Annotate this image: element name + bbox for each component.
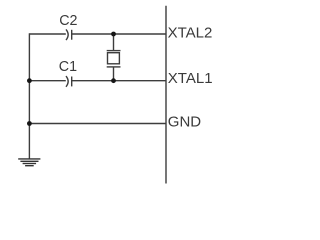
wire: XTAL1 net, left segment to C1: [29, 80, 65, 82]
wire: GND net horizontal: [29, 123, 166, 125]
svg-text:C1: C1: [59, 59, 77, 75]
IC edge (microcontroller outline pin edge): [165, 6, 167, 184]
svg-text:XTAL1: XTAL1: [168, 70, 213, 87]
svg-text:XTAL2: XTAL2: [168, 24, 213, 41]
svg-text:GND: GND: [168, 114, 202, 131]
capacitor C2: [66, 29, 72, 40]
capacitor C1: [66, 76, 72, 87]
junction: crystal top / XTAL2 wire: [111, 32, 116, 37]
svg-text:C2: C2: [59, 13, 77, 29]
ground (earth) symbol: [18, 159, 40, 166]
wire: XTAL2 net, left segment to C2: [29, 33, 65, 35]
wire: XTAL2 net, C2 to XTAL2 pin: [72, 33, 166, 35]
junction: crystal bottom / XTAL1 wire: [111, 78, 116, 83]
junction: left bus / XTAL1 wire: [27, 78, 32, 83]
junction: left bus / GND wire: [27, 121, 32, 126]
crystal Y1: [107, 34, 121, 81]
wire: left vertical bus (C2/C1/GND common): [28, 33, 30, 158]
wire: XTAL1 net, C1 to XTAL1 pin: [72, 80, 166, 82]
